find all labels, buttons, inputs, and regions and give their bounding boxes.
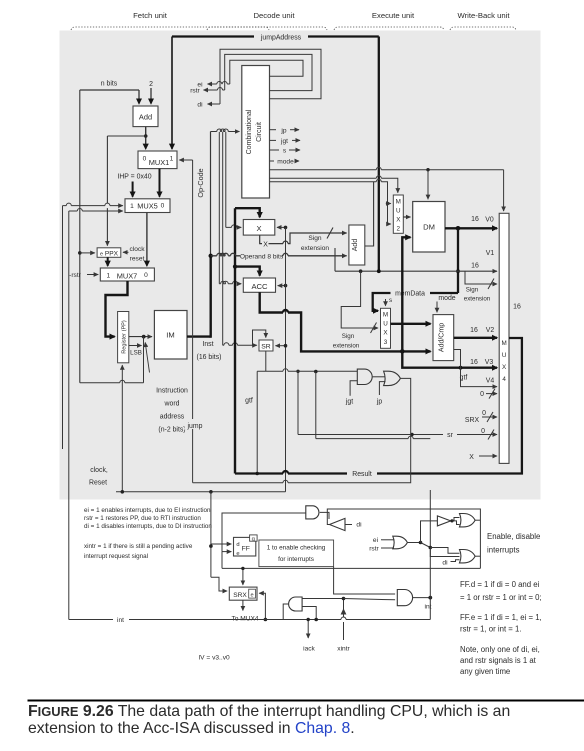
svg-text:U: U — [502, 352, 507, 359]
svg-text:jumpAddress: jumpAddress — [260, 35, 302, 42]
wire AddCmp output V2 — [454, 337, 497, 339]
wire n-bits drop into Add — [138, 90, 140, 104]
wire jump return line — [193, 480, 411, 483]
wire operand sign extension to MUX3 — [341, 271, 378, 333]
wire MUX2 upper left input — [388, 203, 391, 205]
wire SR top feedback loop — [253, 330, 266, 346]
wire control line A to DM and MUX4 — [270, 167, 504, 170]
wire OR2 output — [475, 555, 480, 557]
label V0 — [485, 216, 494, 223]
buffer triangle — [437, 516, 450, 526]
wire SRX input to MUX4 — [465, 410, 497, 424]
node int line to jp rect — [314, 370, 318, 374]
svg-text:U: U — [396, 208, 401, 215]
wire FF d input — [211, 543, 231, 545]
wire left outer vertical (int feedback) — [62, 206, 64, 449]
wire DM top select — [427, 170, 429, 200]
svg-text:DM: DM — [423, 223, 435, 232]
svg-text:X: X — [263, 241, 268, 248]
wire jgt stub — [350, 381, 357, 396]
wire MUX4 output Result — [377, 338, 522, 474]
register PPX — [97, 248, 121, 258]
wire Add output branch to PPX column — [107, 135, 145, 137]
wire left inner vertical — [68, 211, 70, 620]
svg-text:0: 0 — [143, 156, 147, 163]
label 16 (MUX4 output) — [513, 304, 521, 311]
svg-text:any given time: any given time — [460, 667, 510, 676]
label memData — [395, 291, 425, 298]
label gtf (SR) — [245, 398, 253, 405]
wire X input to MUX4 — [469, 454, 497, 461]
wire control line C to MUX2 inputs — [270, 179, 391, 224]
svg-text:LSB: LSB — [130, 350, 142, 357]
label jump — [185, 420, 205, 431]
wire G3 input line — [222, 513, 306, 552]
register Register (PP) — [118, 312, 129, 363]
svg-text:16: 16 — [513, 304, 521, 311]
wire Add exec output riser to MUX2 — [365, 182, 374, 246]
wire operand 8 bits line — [211, 253, 347, 256]
node xintr join — [342, 597, 346, 601]
wire jgt AND output to jp OR — [373, 376, 385, 378]
node line C upper branch — [386, 202, 389, 205]
node V1 to sign extension branch — [359, 269, 363, 273]
label -rstr — [69, 272, 82, 279]
wire SR bottom output — [265, 351, 267, 371]
svg-text:gtf: gtf — [460, 375, 468, 382]
label int (left) — [117, 617, 124, 624]
label jumpAddress — [260, 35, 302, 42]
svg-text:rstr = 1 restores PP, due to R: rstr = 1 restores PP, due to RTI instruc… — [84, 515, 201, 522]
wire constant 0 input a — [480, 389, 497, 399]
svg-text:MUX5: MUX5 — [137, 202, 158, 211]
wire Result left segment — [235, 471, 347, 473]
node OR output dot1 — [419, 541, 423, 545]
svg-text:V3: V3 — [485, 359, 494, 366]
wire ACC clock input — [278, 285, 286, 287]
wire X output to sign extension — [269, 233, 347, 244]
label Op-Code — [196, 168, 205, 197]
label IHP = 0x40 — [117, 174, 151, 181]
label 16 (V1) — [471, 262, 479, 269]
svg-text:q: q — [252, 537, 255, 543]
node instruction word address junction — [142, 335, 146, 339]
label Decode unit — [253, 11, 295, 20]
wire decode field vertical a — [218, 132, 220, 284]
wire MUX2 output to DM — [403, 216, 410, 218]
node buffer output — [450, 519, 453, 522]
wire MUX3 output to AddCmp — [391, 323, 431, 325]
wire G2 output int — [413, 597, 431, 599]
symbol slash sign-extension (X to Add) — [327, 228, 333, 239]
gate OR1 enable — [460, 514, 476, 527]
svg-text:2: 2 — [149, 81, 153, 88]
wire int vertical to enable cluster — [429, 490, 431, 620]
label gtf (AddCmp) — [460, 375, 468, 382]
svg-text:rstr: rstr — [190, 88, 200, 95]
wire buffer to OR1 inputs — [452, 518, 460, 525]
wire jp stub — [379, 382, 385, 395]
svg-text:Circuit: Circuit — [256, 122, 263, 142]
rule above caption — [28, 700, 584, 702]
node gtf to result — [255, 472, 259, 476]
svg-text:X: X — [469, 454, 474, 461]
label V1 — [486, 250, 495, 257]
svg-text:jp: jp — [280, 127, 286, 134]
brace Decode unit — [207, 27, 327, 30]
svg-text:U: U — [383, 321, 388, 328]
wire MUX5 second left input — [69, 209, 123, 212]
svg-text:clock,: clock, — [90, 467, 108, 474]
label iack — [303, 646, 315, 653]
wire Inst riser thick — [209, 256, 211, 338]
svg-text:ei: ei — [373, 537, 379, 544]
wire X clock input — [277, 226, 286, 228]
svg-text:FIGURE 9.26 The data path of t: FIGURE 9.26 The data path of the interru… — [28, 703, 510, 720]
gate G2 AND right-pointing — [397, 590, 412, 606]
label ei (gate) — [373, 537, 379, 544]
node Add output junction — [144, 134, 148, 138]
wire jp OR output drop — [400, 378, 410, 481]
svg-text:jgt: jgt — [280, 138, 288, 145]
label To MUX4 — [228, 612, 262, 623]
wire FF q to G2 tail — [334, 567, 396, 594]
mux MUX5 — [125, 199, 170, 213]
label LSB — [130, 350, 142, 357]
label Instruction word address (n-2 bits) — [156, 388, 188, 434]
svg-text:2: 2 — [397, 226, 401, 233]
label mode — [438, 295, 455, 302]
wire MUX5 output down to MUX7 — [146, 213, 148, 266]
label Operand 8 bits — [240, 253, 284, 260]
label Fetch unit — [133, 11, 168, 20]
wire OR output — [407, 542, 420, 544]
wire jumpAddress — [172, 35, 379, 37]
svg-text:Combinational: Combinational — [246, 109, 253, 154]
svg-text:iack: iack — [303, 646, 315, 653]
flipflop FF — [234, 537, 256, 556]
wire rstr output — [204, 88, 225, 91]
label jp — [376, 399, 383, 406]
label di (inverter) — [356, 522, 362, 529]
svg-text:Instruction: Instruction — [156, 388, 188, 395]
svg-text:V0: V0 — [485, 216, 494, 223]
wire DM data output V0 — [445, 227, 497, 229]
node operand junction — [209, 254, 213, 258]
wire SRX output down — [242, 600, 244, 610]
brace Fetch unit — [71, 27, 269, 30]
register X — [243, 220, 274, 236]
wire LSB branch — [129, 345, 142, 347]
wire G2 bottom input — [344, 599, 396, 600]
wire reset drop to FF — [210, 492, 212, 577]
svg-text:V4: V4 — [486, 378, 495, 385]
wire decode field vertical c — [225, 132, 227, 227]
svg-text:for interrupts: for interrupts — [278, 556, 314, 563]
wire MUX4 top select — [503, 170, 505, 211]
svg-text:FF.d = 1 if di = 0 and ei: FF.d = 1 if di = 0 and ei — [460, 580, 540, 589]
wire memData horizontal to MUX3 — [373, 293, 458, 311]
svg-text:interrupt request signal: interrupt request signal — [84, 553, 148, 560]
wire CC output jgt — [270, 138, 301, 145]
node V1 jumpAddress — [377, 269, 381, 273]
node result bus to ACC — [233, 265, 237, 269]
svg-text:n bits: n bits — [101, 81, 118, 88]
svg-text:di: di — [197, 102, 203, 109]
svg-text:extension: extension — [464, 296, 491, 303]
svg-text:int: int — [117, 617, 124, 624]
wire LSB vertical down — [143, 337, 145, 383]
wire PPX left input — [80, 252, 95, 254]
svg-text:Result: Result — [352, 471, 372, 478]
wire MUX5 left input from outer loop — [63, 203, 123, 206]
wire decode field vertical b — [222, 132, 224, 345]
svg-text:Sign: Sign — [342, 333, 355, 340]
wire G1 output — [283, 604, 288, 620]
svg-text:1: 1 — [170, 156, 174, 163]
wire Add output to MUX1 — [145, 127, 147, 149]
wire di into inverter — [345, 524, 352, 526]
svg-text:SRX: SRX — [465, 417, 480, 424]
wire iack drop — [307, 620, 309, 639]
label rstr (gate) — [369, 546, 379, 553]
svg-text:-rstr: -rstr — [69, 272, 82, 279]
svg-text:Enable, disable: Enable, disable — [487, 532, 540, 541]
wire SRX right input from int — [259, 593, 265, 619]
node reset to register riser — [121, 490, 125, 494]
wire rstr input — [381, 547, 394, 549]
wire G1 bottom input — [302, 607, 316, 620]
svg-text:X: X — [256, 224, 261, 233]
node int output — [428, 596, 432, 600]
label 16 (V0) — [471, 216, 479, 223]
wire CC output mode — [270, 159, 300, 166]
wire MUX1 output into MUX5 — [159, 169, 161, 197]
mux MUX7 — [100, 268, 154, 281]
label 16 (V2) — [470, 327, 478, 334]
svg-text:= 1 or rstr = 1 or int = 0;: = 1 or rstr = 1 or int = 0; — [460, 593, 542, 602]
label rstr — [190, 88, 200, 95]
wire Op-Code riser — [210, 132, 212, 256]
svg-text:e: e — [236, 551, 239, 557]
wire DM write data riser — [402, 237, 410, 351]
wire rstr select into MUX7 — [87, 274, 98, 276]
svg-text:di: di — [442, 560, 448, 567]
svg-text:extension: extension — [333, 343, 360, 350]
node ACC bus to DM write riser — [400, 349, 405, 354]
label V2 — [486, 327, 495, 334]
svg-text:d: d — [236, 542, 239, 548]
svg-text:Inst: Inst — [202, 341, 213, 348]
svg-text:V2: V2 — [486, 327, 495, 334]
wire mode select into AddCmp — [436, 302, 438, 313]
note xintr explanation — [84, 543, 193, 560]
svg-text:1 to enable checking: 1 to enable checking — [267, 544, 326, 551]
svg-text:Fetch unit: Fetch unit — [133, 11, 168, 20]
svg-text:s: s — [389, 297, 392, 304]
wire gtf branch left — [256, 371, 258, 473]
svg-text:0: 0 — [481, 428, 485, 435]
svg-text:IV = v3..v0: IV = v3..v0 — [198, 655, 230, 662]
wire Register PP output to IM — [129, 336, 152, 338]
mux MUX3 — [381, 308, 391, 348]
svg-text:M: M — [396, 199, 401, 206]
wire PPX output into MUX7 — [107, 257, 109, 266]
wire FF e return input — [222, 551, 231, 553]
node iack tap — [307, 618, 310, 621]
wire ACC left input — [219, 281, 241, 284]
wire jump select into MUX1 right — [179, 159, 192, 161]
svg-text:xintr = 1 if there is still a: xintr = 1 if there is still a pending ac… — [84, 543, 193, 550]
wire FF e input loop left — [211, 577, 227, 591]
svg-text:extension: extension — [301, 245, 330, 252]
wire inverter output hook to enable loop — [327, 509, 480, 568]
svg-text:0: 0 — [161, 203, 165, 210]
svg-text:jp: jp — [376, 399, 383, 406]
svg-text:Add/Cmp: Add/Cmp — [439, 323, 446, 352]
svg-text:Sign: Sign — [308, 235, 322, 242]
svg-text:jgt: jgt — [345, 399, 353, 406]
brace Write-Back unit — [450, 27, 516, 30]
wire SR left input — [223, 343, 257, 346]
svg-text:Write-Back unit: Write-Back unit — [458, 11, 511, 20]
label Inst (16 bits) — [197, 341, 222, 361]
label X output — [263, 241, 268, 248]
wire feedback loop 1 (outer) — [220, 49, 321, 104]
label int (right) — [425, 604, 432, 611]
wire ACC top input — [235, 267, 260, 276]
caption figure 9.26 — [28, 703, 510, 737]
gate jgt AND — [357, 369, 372, 384]
wire sr line to MUX4 — [298, 428, 497, 440]
wire jumpAddress right drop to V1 line — [378, 37, 380, 272]
mux MUX4 — [499, 213, 509, 463]
gate G3 AND (top small) — [306, 506, 319, 519]
wire ei output — [208, 82, 230, 84]
svg-text:IHP = 0x40: IHP = 0x40 — [117, 174, 151, 181]
wire di elbow to OR2 — [451, 560, 460, 562]
gate jp OR — [384, 371, 401, 385]
node clock bus at X — [284, 226, 288, 230]
svg-text:xintr: xintr — [337, 646, 350, 653]
node PPX input junction — [78, 251, 82, 255]
svg-text:e: e — [251, 592, 254, 598]
label Enable disable interrupts — [487, 532, 540, 555]
wire PP feedback vertical (n bits) — [79, 90, 81, 383]
wire SRX top input — [242, 568, 244, 585]
wire CC output jp — [270, 127, 300, 134]
wire dot1 to buffer — [421, 521, 438, 543]
svg-text:V1: V1 — [486, 250, 495, 257]
svg-text:ei = 1 enables interrupts, due: ei = 1 enables interrupts, due to EI ins… — [84, 507, 211, 514]
wire clock bus vertical — [285, 227, 287, 491]
node clock bus at ACC — [284, 284, 288, 288]
wire int line — [69, 617, 431, 620]
node dot2 int join — [429, 546, 433, 550]
note FF.d — [460, 580, 542, 602]
svg-text:M: M — [383, 312, 388, 319]
svg-text:extension to the Acc-ISA discu: extension to the Acc-ISA discussed in Ch… — [28, 720, 355, 737]
svg-text:MUX7: MUX7 — [117, 272, 138, 281]
pin q of FF — [250, 535, 258, 543]
wire IHP constant into MUX5 — [132, 182, 134, 197]
label Write-Back unit — [458, 11, 511, 20]
wire feedback loop 3 (inner) — [230, 60, 303, 84]
wire X register output — [260, 235, 262, 244]
svg-text:gtf: gtf — [245, 398, 253, 405]
annotation arrow instruction word address — [145, 343, 149, 373]
wire V1 line — [335, 270, 497, 272]
wire X left input — [226, 225, 241, 228]
note ei rstr di explanation — [84, 507, 212, 530]
label Sign extension (X path) — [301, 235, 330, 252]
wire dot1 to dot2 — [421, 543, 431, 548]
label jgt — [345, 399, 353, 406]
svg-text:(n-2 bits): (n-2 bits) — [158, 427, 185, 434]
label n bits — [101, 81, 118, 88]
label V4 — [486, 378, 495, 385]
svg-text:M: M — [501, 340, 506, 347]
svg-text:mode: mode — [438, 295, 455, 302]
svg-text:16: 16 — [470, 327, 478, 334]
node sr line jp crossing — [410, 433, 413, 436]
wire dot2 to OR2 — [430, 548, 459, 557]
svg-text:1: 1 — [106, 273, 110, 280]
label di (OR2) — [442, 560, 448, 567]
svg-text:0: 0 — [144, 272, 148, 279]
svg-text:and rstr signals is 1 at: and rstr signals is 1 at — [460, 656, 537, 665]
svg-text:sr: sr — [447, 432, 453, 439]
svg-text:16: 16 — [470, 359, 478, 366]
wire OR1 output — [475, 519, 480, 521]
label xintr — [337, 646, 350, 653]
adder Add (execute) — [349, 225, 365, 265]
label di — [197, 102, 203, 109]
wire G3 output to inverter — [320, 512, 329, 519]
register ACC — [243, 278, 275, 292]
svg-text:mode: mode — [277, 159, 294, 166]
svg-text:e: e — [100, 251, 103, 257]
svg-text:Execute unit: Execute unit — [372, 11, 415, 20]
svg-text:Sign: Sign — [466, 287, 479, 294]
note FF.e — [460, 613, 542, 634]
wire ei input — [381, 539, 394, 541]
wire Op-Code into CC — [211, 129, 240, 132]
callout 1 to enable checking for interrupts — [259, 540, 334, 567]
svg-text:Decode unit: Decode unit — [253, 11, 295, 20]
svg-text:16: 16 — [471, 216, 479, 223]
label reset (PPX) — [130, 256, 145, 263]
wire feedback loop 2 — [225, 54, 312, 90]
mux MUX1 — [138, 151, 177, 169]
svg-text:Operand 8 bits: Operand 8 bits — [240, 253, 284, 260]
label ei — [197, 82, 203, 89]
svg-text:di = 1 disables interrupts, du: di = 1 disables interrupts, due to DI in… — [84, 523, 212, 530]
svg-text:FF.e = 1 if di = 1, ei = 1,: FF.e = 1 if di = 1, ei = 1, — [460, 613, 542, 622]
svg-text:FF: FF — [242, 546, 250, 553]
wire PP feedback return — [80, 380, 144, 383]
svg-text:reset: reset — [130, 256, 145, 263]
wire MUX7 output to Register PP — [106, 281, 128, 337]
node memData junction — [456, 226, 461, 231]
gate OR ei rstr — [393, 536, 408, 549]
wire xintr riser — [341, 599, 347, 641]
node SRX enable tap — [241, 567, 244, 570]
wire s select into MUX3 — [386, 297, 393, 306]
node memData at V1 — [456, 269, 460, 273]
wire PPX top feed vertical — [106, 136, 108, 246]
label sr — [447, 432, 453, 439]
